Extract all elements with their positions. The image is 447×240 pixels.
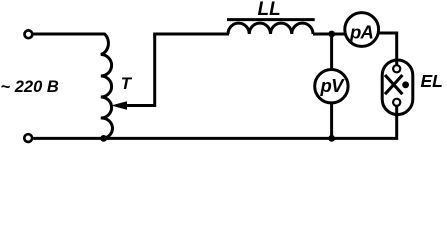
lamp EL gas dot bbox=[402, 81, 409, 88]
arrowhead of tap bbox=[111, 101, 127, 109]
lamp EL bottom electrode bbox=[393, 99, 400, 106]
svg-text:T: T bbox=[121, 74, 133, 93]
wire inductor to ammeter bbox=[313, 33, 346, 36]
svg-text:pV: pV bbox=[319, 75, 345, 96]
svg-text:pA: pA bbox=[349, 22, 374, 43]
wire bottom rail bbox=[33, 105, 396, 138]
lamp EL top electrode bbox=[393, 65, 400, 72]
wire top rail to inductor bbox=[153, 33, 229, 36]
node junction dot bottom left (transformer) bbox=[100, 135, 107, 142]
terminal top-left bbox=[25, 30, 33, 38]
lamp EL discharge cross bbox=[385, 75, 402, 94]
node junction dot top (voltmeter tap) bbox=[328, 31, 335, 38]
voltmeter pV bbox=[315, 70, 348, 103]
inductor LL core bar bbox=[227, 18, 315, 21]
terminal bottom-left bbox=[24, 134, 32, 142]
wire ammeter to lamp bbox=[379, 33, 397, 66]
wire voltmeter branch vertical bbox=[330, 34, 333, 138]
svg-text:EL: EL bbox=[421, 71, 443, 91]
lamp EL envelope bbox=[382, 60, 413, 115]
ammeter pA bbox=[345, 13, 379, 47]
node junction dot bottom (voltmeter) bbox=[328, 135, 335, 142]
svg-text:LL: LL bbox=[258, 0, 281, 20]
wire top-left + transformer T winding bbox=[34, 34, 113, 138]
wire tap shaft and riser bbox=[124, 34, 155, 106]
svg-text:~ 220 В: ~ 220 В bbox=[1, 78, 59, 96]
inductor LL winding bbox=[228, 23, 313, 34]
